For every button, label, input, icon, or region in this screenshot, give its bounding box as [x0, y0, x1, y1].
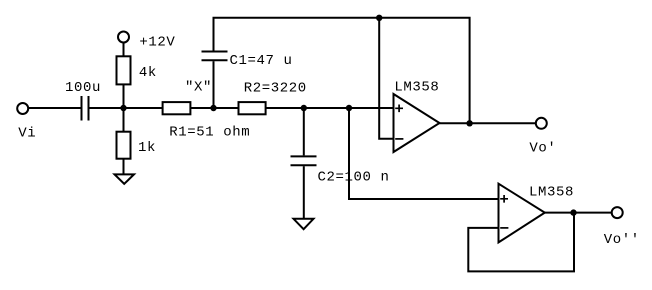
svg-text:+12V: +12V	[139, 35, 175, 51]
svg-text:C2=100 n: C2=100 n	[318, 170, 390, 186]
svg-text:4k: 4k	[139, 65, 157, 81]
wire node X to C1	[213, 61, 215, 108]
terminal +12V	[118, 32, 129, 43]
resistor R1	[163, 102, 191, 114]
wire 4k to junction	[123, 84, 125, 108]
ground below 1k	[115, 174, 135, 184]
svg-text:C1=47 u: C1=47 u	[230, 53, 293, 69]
capacitor C1	[202, 59, 228, 61]
wire +12V to 4k	[123, 43, 125, 57]
wire R1 to node X	[190, 107, 238, 109]
node branch to op-amp2	[346, 105, 352, 111]
node top rail junction	[376, 15, 382, 21]
svg-text:LM358: LM358	[394, 80, 439, 96]
terminal Vo'	[536, 118, 547, 129]
wire feedback to inverting input	[379, 18, 393, 139]
svg-text:100u: 100u	[65, 80, 101, 96]
op-amp U2	[499, 184, 545, 243]
svg-text:Vo': Vo'	[529, 141, 556, 157]
svg-text:LM358: LM358	[529, 185, 574, 201]
wire op-amp1 output	[440, 122, 536, 124]
terminal Vo''	[612, 207, 623, 218]
resistor R2	[239, 102, 266, 114]
resistor 1k	[117, 132, 131, 159]
wire C-100u to R1	[90, 107, 163, 109]
wire C2 to ground	[303, 166, 305, 219]
svg-text:R1=51 ohm: R1=51 ohm	[169, 125, 250, 141]
svg-text:R2=3220: R2=3220	[244, 81, 307, 97]
wire R2 to op-amp1 non-inverting input	[266, 107, 394, 109]
wire C2 junction down	[303, 108, 305, 155]
pin - U1	[395, 138, 403, 140]
node X	[210, 105, 216, 111]
wire C1 to top rail and down to op-amp1 output	[214, 18, 470, 124]
resistor 4k	[117, 56, 131, 84]
pin - U2	[500, 227, 508, 229]
op-amp U1	[394, 94, 440, 152]
capacitor 100u	[81, 96, 83, 121]
wire Vi to C-100u	[28, 107, 80, 109]
svg-text:"X": "X"	[185, 80, 212, 96]
terminal Vi	[17, 103, 28, 114]
node op-amp2 output junction	[570, 209, 576, 215]
wire branch to op-amp2 non-inverting input	[349, 108, 499, 199]
capacitor C2	[291, 155, 317, 157]
pin + U1	[395, 105, 403, 113]
node C2 junction	[301, 105, 307, 111]
wire 1k to ground	[123, 159, 125, 175]
wire junction to 1k	[123, 108, 125, 132]
node op-amp1 output junction	[466, 120, 472, 126]
wire op-amp2 feedback loop	[468, 213, 574, 272]
ground below C2	[294, 219, 314, 229]
node divider junction	[120, 105, 126, 111]
svg-text:Vo'': Vo''	[604, 232, 640, 248]
pin + U2	[500, 195, 508, 203]
wire op-amp2 output	[545, 212, 612, 214]
svg-text:1k: 1k	[138, 140, 156, 156]
svg-text:Vi: Vi	[18, 126, 36, 142]
